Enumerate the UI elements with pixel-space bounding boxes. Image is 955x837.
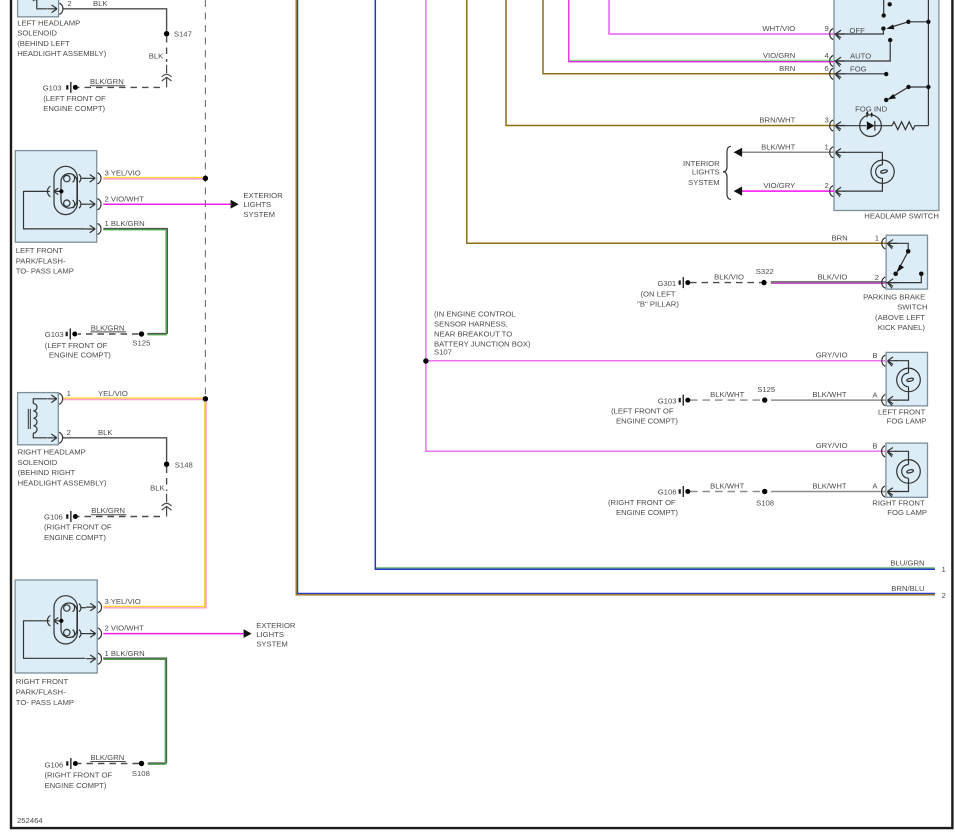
svg-text:WHT/VIO: WHT/VIO (762, 24, 795, 33)
svg-text:TO- PASS LAMP: TO- PASS LAMP (16, 698, 74, 707)
svg-text:BLK/GRN: BLK/GRN (91, 753, 125, 762)
svg-text:S147: S147 (174, 30, 192, 39)
svg-text:BLK/GRN: BLK/GRN (91, 323, 125, 332)
svg-text:"B" PILLAR): "B" PILLAR) (637, 300, 679, 309)
svg-text:NEAR BREAKOUT TO: NEAR BREAKOUT TO (434, 330, 512, 339)
svg-text:BLK: BLK (93, 0, 108, 8)
svg-text:BRN/WHT: BRN/WHT (759, 116, 795, 125)
svg-text:EXTERIOR: EXTERIOR (243, 191, 283, 200)
svg-text:SOLENOID: SOLENOID (18, 458, 58, 467)
svg-text:S322: S322 (756, 267, 774, 276)
svg-text:2 VIO/WHT: 2 VIO/WHT (105, 194, 145, 203)
svg-text:FOG LAMP: FOG LAMP (887, 508, 927, 517)
svg-text:1 BLK/GRN: 1 BLK/GRN (105, 649, 145, 658)
svg-text:SYSTEM: SYSTEM (688, 178, 720, 187)
svg-text:RIGHT HEADLAMP: RIGHT HEADLAMP (18, 447, 86, 456)
svg-text:BLK/WHT: BLK/WHT (761, 142, 795, 151)
svg-text:2: 2 (67, 0, 71, 8)
svg-text:FOG LAMP: FOG LAMP (887, 417, 927, 426)
svg-text:HEADLIGHT ASSEMBLY): HEADLIGHT ASSEMBLY) (17, 49, 106, 58)
svg-text:BRN/BLU: BRN/BLU (891, 584, 924, 593)
svg-text:VIO/GRN: VIO/GRN (763, 51, 795, 60)
svg-text:BLK/WHT: BLK/WHT (812, 481, 846, 490)
svg-text:G106: G106 (45, 761, 64, 770)
svg-text:SOLENOID: SOLENOID (17, 29, 57, 38)
svg-text:PARKING BRAKE: PARKING BRAKE (863, 292, 925, 301)
svg-text:VIO/GRY: VIO/GRY (763, 181, 795, 190)
svg-text:(IN ENGINE CONTROL: (IN ENGINE CONTROL (434, 309, 516, 318)
svg-text:BLK: BLK (149, 51, 164, 60)
svg-text:PARK/FLASH-: PARK/FLASH- (16, 256, 66, 265)
svg-text:LEFT HEADLAMP: LEFT HEADLAMP (17, 18, 80, 27)
svg-text:4: 4 (825, 51, 830, 60)
svg-text:S125: S125 (132, 338, 150, 347)
svg-text:FOG IND: FOG IND (855, 105, 887, 114)
svg-text:A: A (872, 390, 878, 399)
svg-text:(LEFT FRONT OF: (LEFT FRONT OF (611, 407, 674, 416)
svg-text:RIGHT FRONT: RIGHT FRONT (872, 499, 925, 508)
svg-text:ENGINE COMPT): ENGINE COMPT) (616, 508, 678, 517)
svg-text:BLK/WHT: BLK/WHT (812, 390, 846, 399)
svg-text:A: A (872, 482, 878, 491)
svg-text:(BEHIND RIGHT: (BEHIND RIGHT (18, 468, 76, 477)
svg-text:AUTO: AUTO (850, 52, 871, 61)
svg-text:G103: G103 (45, 330, 64, 339)
svg-text:BLK: BLK (98, 428, 113, 437)
svg-text:2: 2 (942, 591, 946, 600)
svg-text:G106: G106 (658, 488, 677, 497)
svg-text:252464: 252464 (17, 816, 43, 825)
svg-text:BLK/VIO: BLK/VIO (714, 273, 744, 282)
svg-text:1 BLK/GRN: 1 BLK/GRN (105, 219, 145, 228)
svg-text:3: 3 (825, 116, 829, 125)
svg-text:LEFT FRONT: LEFT FRONT (16, 246, 64, 255)
svg-text:6: 6 (825, 64, 829, 73)
svg-text:(LEFT FRONT OF: (LEFT FRONT OF (43, 94, 106, 103)
svg-text:BLK/GRN: BLK/GRN (91, 506, 125, 515)
svg-text:S108: S108 (756, 499, 774, 508)
svg-text:PARK/FLASH-: PARK/FLASH- (16, 688, 66, 697)
svg-text:OFF: OFF (849, 26, 865, 35)
svg-text:RIGHT FRONT: RIGHT FRONT (16, 677, 69, 686)
svg-text:S107: S107 (434, 348, 452, 357)
svg-text:LIGHTS: LIGHTS (256, 630, 284, 639)
svg-text:TO- PASS LAMP: TO- PASS LAMP (16, 267, 74, 276)
svg-text:9: 9 (825, 24, 829, 33)
svg-text:2: 2 (875, 273, 879, 282)
svg-text:3 YEL/VIO: 3 YEL/VIO (105, 168, 141, 177)
svg-text:BLK/WHT: BLK/WHT (710, 481, 744, 490)
svg-text:G301: G301 (657, 279, 676, 288)
svg-text:ENGINE COMPT): ENGINE COMPT) (616, 416, 678, 425)
svg-text:ENGINE COMPT): ENGINE COMPT) (49, 351, 111, 360)
svg-text:(ABOVE LEFT: (ABOVE LEFT (875, 313, 925, 322)
svg-text:GRY/VIO: GRY/VIO (816, 441, 848, 450)
svg-text:1: 1 (942, 565, 946, 574)
svg-text:BLK/WHT: BLK/WHT (710, 390, 744, 399)
svg-text:LIGHTS: LIGHTS (692, 168, 720, 177)
svg-text:HEADLIGHT ASSEMBLY): HEADLIGHT ASSEMBLY) (18, 479, 107, 488)
svg-text:B: B (872, 351, 877, 360)
svg-text:SENSOR HARNESS,: SENSOR HARNESS, (434, 320, 508, 329)
svg-text:ENGINE COMPT): ENGINE COMPT) (44, 533, 106, 542)
svg-text:(RIGHT FRONT OF: (RIGHT FRONT OF (44, 523, 112, 532)
svg-text:2 VIO/WHT: 2 VIO/WHT (105, 624, 145, 633)
svg-text:KICK PANEL): KICK PANEL) (878, 323, 926, 332)
svg-text:LEFT FRONT: LEFT FRONT (878, 407, 926, 416)
svg-text:SYSTEM: SYSTEM (256, 640, 288, 649)
svg-text:3 YEL/VIO: 3 YEL/VIO (105, 597, 141, 606)
svg-text:(BEHIND LEFT: (BEHIND LEFT (17, 39, 70, 48)
svg-text:(ON LEFT: (ON LEFT (640, 289, 675, 298)
svg-text:B: B (872, 442, 877, 451)
svg-text:EXTERIOR: EXTERIOR (256, 621, 296, 630)
svg-text:BLK: BLK (150, 483, 165, 492)
svg-text:S108: S108 (132, 769, 150, 778)
svg-text:1: 1 (67, 389, 71, 398)
svg-text:S125: S125 (757, 385, 775, 394)
svg-text:ENGINE COMPT): ENGINE COMPT) (45, 781, 107, 790)
svg-text:1: 1 (825, 142, 829, 151)
svg-text:(RIGHT FRONT OF: (RIGHT FRONT OF (608, 498, 676, 507)
svg-text:BRN: BRN (779, 64, 795, 73)
svg-text:BLU/GRN: BLU/GRN (890, 559, 924, 568)
svg-text:ENGINE COMPT): ENGINE COMPT) (43, 104, 105, 113)
svg-text:(RIGHT FRONT OF: (RIGHT FRONT OF (45, 771, 113, 780)
svg-text:BLK/GRN: BLK/GRN (90, 77, 124, 86)
svg-text:BRN: BRN (831, 234, 847, 243)
svg-text:FOG: FOG (850, 65, 867, 74)
svg-text:GRY/VIO: GRY/VIO (816, 351, 848, 360)
svg-text:2: 2 (825, 181, 829, 190)
svg-text:G106: G106 (44, 513, 63, 522)
svg-text:G103: G103 (43, 83, 62, 92)
svg-text:SYSTEM: SYSTEM (243, 210, 275, 219)
svg-text:YEL/VIO: YEL/VIO (98, 389, 128, 398)
svg-text:G103: G103 (658, 396, 677, 405)
svg-text:2: 2 (67, 428, 71, 437)
svg-text:1: 1 (875, 234, 879, 243)
svg-text:HEADLAMP SWITCH: HEADLAMP SWITCH (864, 212, 939, 221)
svg-text:(LEFT FRONT OF: (LEFT FRONT OF (45, 341, 108, 350)
svg-text:SWITCH: SWITCH (897, 303, 927, 312)
svg-text:S148: S148 (175, 460, 193, 469)
svg-text:BLK/VIO: BLK/VIO (818, 273, 848, 282)
svg-text:LIGHTS: LIGHTS (243, 200, 271, 209)
